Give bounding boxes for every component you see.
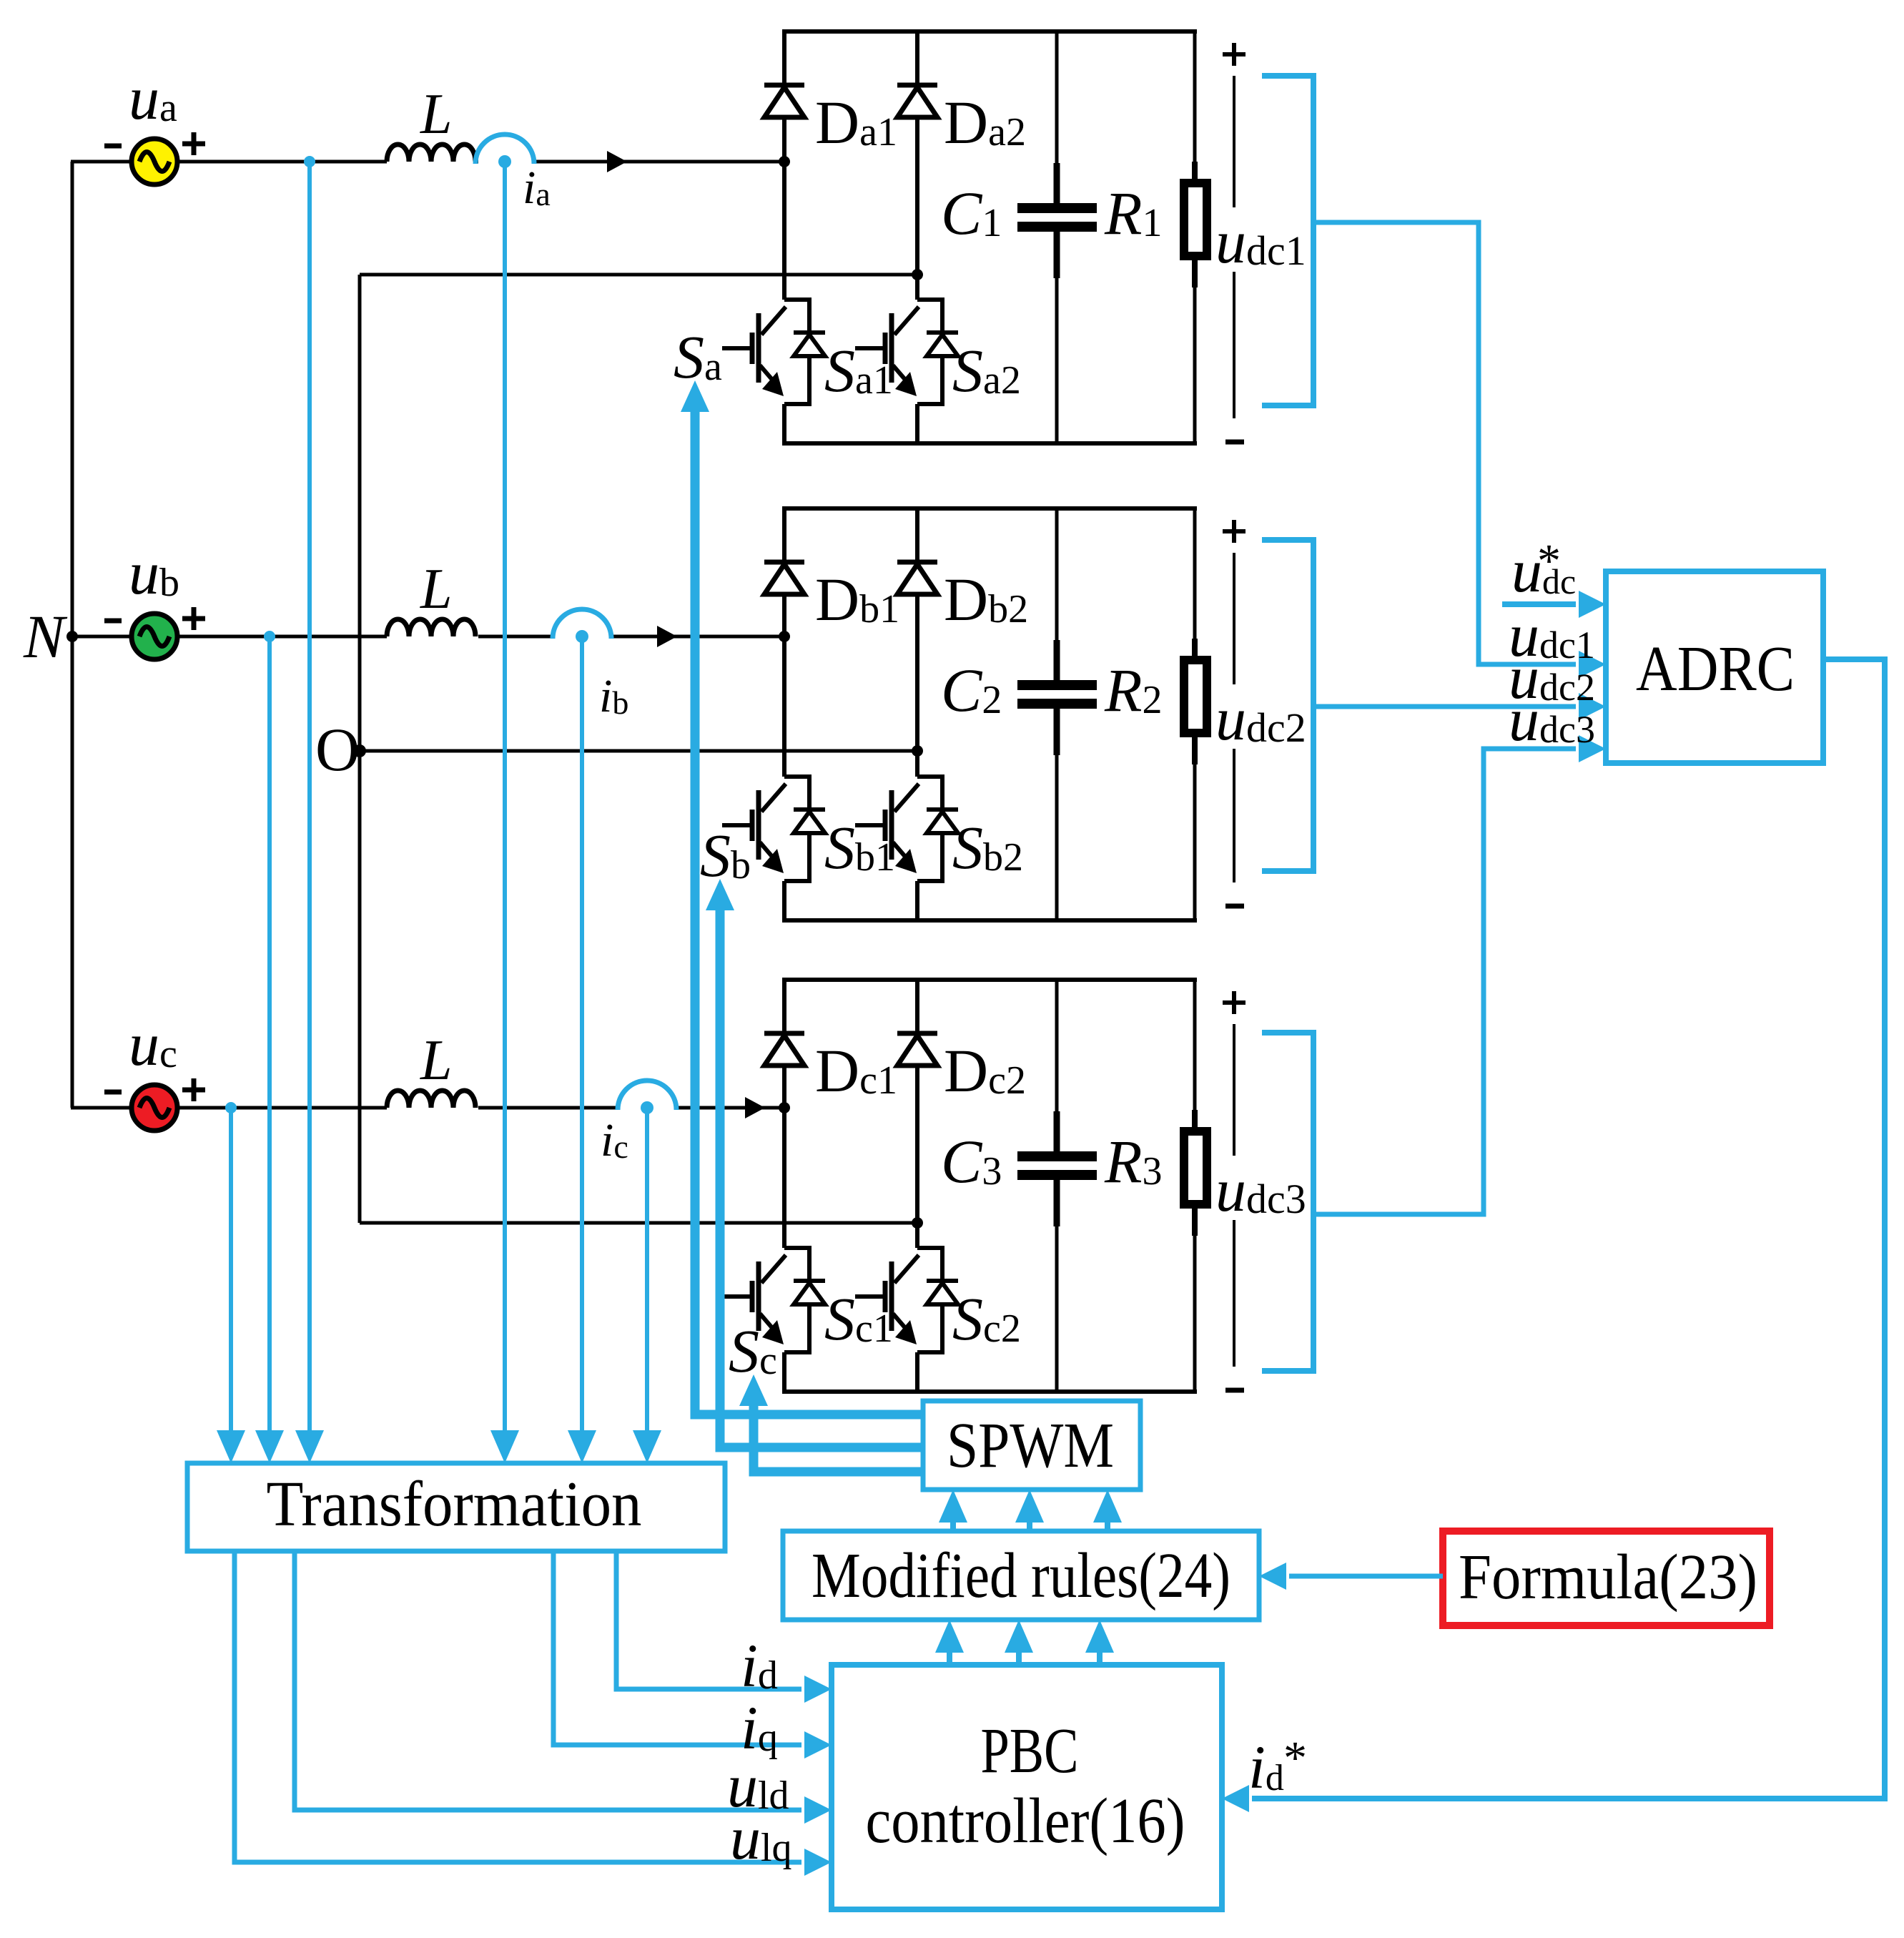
inductor L phase b <box>387 619 475 636</box>
polarity - of udc3 <box>1225 1388 1244 1393</box>
wire Modified rules to SPWM <box>1027 1518 1032 1531</box>
svg-text:*: * <box>1537 535 1561 587</box>
wire PBC to Modified rules <box>947 1648 952 1665</box>
wire phase b source to inductor <box>179 635 387 639</box>
cell 2 right branch <box>1193 508 1197 639</box>
current sensor ic <box>618 1081 676 1110</box>
polarity + of udc3 <box>1223 1000 1246 1005</box>
wire O bus to cell 2 midpoint <box>360 749 917 753</box>
cell 1 branch 2 <box>915 31 919 300</box>
svg-text:O: O <box>315 715 360 784</box>
wire uc voltage tap <box>225 1102 237 1113</box>
block Formula(23) <box>1443 1531 1770 1625</box>
transistor Sb2 <box>917 777 942 881</box>
polarity + of ub <box>182 616 205 621</box>
transistor Sa2 <box>917 300 942 404</box>
wire ADRC output to PBC id* <box>1252 659 1885 1799</box>
cell 1 right branch <box>1193 31 1197 162</box>
inductor L phase a <box>387 144 475 162</box>
cell 3 top rail <box>782 978 1197 982</box>
cell 2 bottom rail <box>782 918 1197 923</box>
voltage mark line udc1 <box>1233 76 1235 207</box>
wire phase c sensor to cell <box>676 1106 784 1110</box>
wire phase b source left <box>71 635 130 639</box>
voltage source ua <box>132 139 177 185</box>
wire iq to PBC <box>553 1551 801 1745</box>
wire Modified rules to SPWM <box>950 1518 956 1531</box>
arrow current direction c <box>745 1097 765 1118</box>
transistor Sa1 <box>784 300 809 404</box>
svg-text:Formula(23): Formula(23) <box>1459 1542 1757 1613</box>
wire ic sense line <box>645 1108 649 1432</box>
svg-text:controller(16): controller(16) <box>866 1786 1185 1856</box>
wire phase c inductor to sensor <box>478 1106 618 1110</box>
diode Da2 <box>897 83 937 88</box>
cell 3 branch 2 <box>915 980 919 1248</box>
wire ib sense line <box>580 636 584 1432</box>
arrow current direction a <box>607 151 627 172</box>
wire uld to PBC <box>295 1551 801 1810</box>
wire ulq to PBC <box>235 1551 801 1862</box>
voltage source ub <box>132 614 177 659</box>
wire Modified rules to SPWM <box>1105 1518 1110 1531</box>
wire N bus vertical <box>71 162 74 1108</box>
resistor R1 <box>1192 162 1198 183</box>
cell 1 branch 1 <box>782 31 786 300</box>
svg-text:L: L <box>420 558 453 621</box>
wire phase a source to inductor <box>179 160 387 164</box>
svg-text:PBC: PBC <box>981 1716 1079 1786</box>
block ADRC <box>1606 571 1823 763</box>
wire PBC to Modified rules <box>1097 1648 1103 1665</box>
cell 1 bottom rail <box>782 441 1197 446</box>
node phase c cell entry <box>779 1102 790 1113</box>
svg-text:Modified rules(24): Modified rules(24) <box>812 1540 1230 1611</box>
polarity - of udc2 <box>1225 904 1244 909</box>
wire udc reference input <box>1502 601 1576 607</box>
svg-text:Transformation: Transformation <box>267 1469 642 1540</box>
polarity + of ua <box>182 142 205 147</box>
wire phase a inductor to sensor <box>476 160 478 164</box>
diode Dc1 <box>764 1031 804 1036</box>
transistor Sc1 <box>784 1248 809 1352</box>
wire O bus to cell 3 midpoint <box>360 1221 917 1225</box>
wire phase b sensor to cell <box>611 635 784 639</box>
polarity - of ua <box>104 144 122 149</box>
capacitor C3 <box>1017 1151 1097 1161</box>
wire udc3 to ADRC <box>1313 749 1576 1214</box>
transistor Sb1 <box>784 777 809 881</box>
current sensor ib <box>553 609 611 639</box>
cell 2 capacitor branch <box>1055 508 1059 640</box>
node phase a cell entry <box>779 156 790 167</box>
resistor R3 <box>1192 1110 1198 1131</box>
diode Da1 <box>764 83 804 88</box>
diode Db1 <box>764 560 804 565</box>
block Modified rules(24) <box>783 1531 1259 1620</box>
diode Db2 <box>897 560 937 565</box>
voltage mark line udc3 <box>1233 1024 1235 1156</box>
wire ub voltage tap <box>264 631 275 642</box>
wire gate Sb <box>720 909 923 1447</box>
svg-text:L: L <box>420 83 453 146</box>
svg-text:*: * <box>1283 1732 1307 1784</box>
wire phase a sensor to cell <box>533 160 784 164</box>
polarity + of udc2 <box>1223 529 1246 533</box>
block PBC controller(16) <box>832 1665 1222 1909</box>
voltage mark line udc2 <box>1233 553 1235 684</box>
cell 2 branch 2 <box>915 508 919 777</box>
wire gate Sc <box>754 1405 923 1472</box>
node N <box>66 631 78 642</box>
transistor Sc2 <box>917 1248 942 1352</box>
svg-text:N: N <box>23 602 68 671</box>
bracket udc2 measurement <box>1262 540 1313 871</box>
svg-text:ADRC: ADRC <box>1636 634 1795 704</box>
arrow current direction b <box>657 626 677 647</box>
wire Formula to Modified rules <box>1289 1574 1443 1579</box>
capacitor C2 <box>1017 680 1097 690</box>
polarity + of udc1 <box>1223 52 1246 56</box>
inductor L phase c <box>387 1091 475 1108</box>
wire phase b inductor to sensor <box>478 635 553 639</box>
cell 3 bottom rail <box>782 1389 1197 1394</box>
cell 1 top rail <box>782 29 1197 34</box>
polarity + of uc <box>182 1088 205 1093</box>
node phase b cell entry <box>779 631 790 642</box>
current sensor ia <box>475 134 534 164</box>
diode Dc2 <box>897 1031 937 1036</box>
polarity - of udc1 <box>1225 440 1244 445</box>
bracket udc3 measurement <box>1262 1033 1313 1371</box>
wire ia sense line <box>503 162 507 1432</box>
cell 2 top rail <box>782 506 1197 511</box>
wire udc2 to ADRC <box>1313 704 1576 709</box>
wire phase a source left <box>71 160 130 164</box>
wire gate Sa <box>695 410 923 1415</box>
capacitor C1 <box>1017 203 1097 213</box>
cell 3 right branch <box>1193 980 1197 1110</box>
cell 2 branch 1 <box>782 508 786 777</box>
node cell 1 midpoint <box>912 269 923 280</box>
node O <box>353 744 366 757</box>
node cell 3 midpoint <box>912 1217 923 1229</box>
cell 1 capacitor branch <box>1055 31 1059 163</box>
wire phase c source left <box>71 1106 130 1110</box>
svg-text:SPWM: SPWM <box>947 1410 1114 1481</box>
wire O bus to cell 1 midpoint <box>360 273 917 277</box>
wire id to PBC <box>616 1551 801 1689</box>
polarity - of uc <box>104 1090 122 1095</box>
block SPWM <box>923 1401 1140 1490</box>
cell 3 branch 1 <box>782 980 786 1248</box>
bracket udc1 measurement <box>1262 76 1313 405</box>
wire ua voltage tap <box>304 156 315 167</box>
node cell 2 midpoint <box>912 745 923 757</box>
wire phase c source to inductor <box>179 1106 387 1110</box>
wire O bus vertical <box>358 275 362 1223</box>
polarity - of ub <box>104 619 122 624</box>
svg-text:L: L <box>420 1029 453 1092</box>
wire PBC to Modified rules <box>1016 1648 1022 1665</box>
wire udc1 to ADRC <box>1313 222 1576 664</box>
voltage source uc <box>132 1085 177 1131</box>
cell 3 capacitor branch <box>1055 980 1059 1111</box>
block Transformation <box>187 1463 725 1551</box>
resistor R2 <box>1192 639 1198 660</box>
